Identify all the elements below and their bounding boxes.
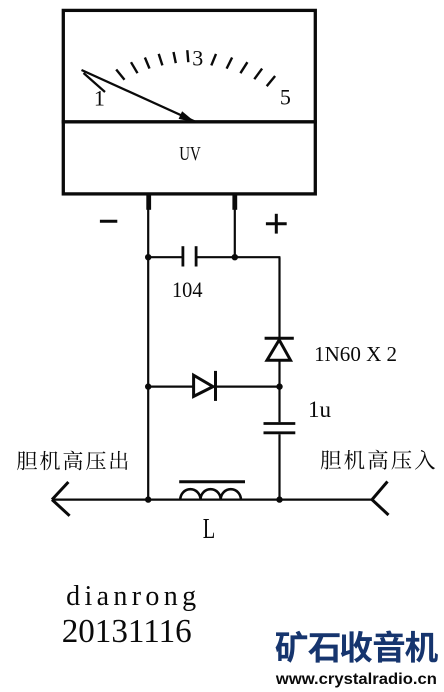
wire between D2 and node C [278, 360, 280, 386]
svg-text:20131116: 20131116 [62, 613, 192, 650]
svg-text:104: 104 [172, 277, 203, 302]
meter terminal stub left [146, 194, 151, 210]
wire mid row left [148, 386, 193, 388]
capacitor C1 104 [183, 246, 196, 266]
svg-text:1N60 X 2: 1N60 X 2 [314, 342, 397, 366]
svg-text:L: L [203, 514, 216, 545]
node C dot [276, 383, 282, 389]
meter M1 divider line [62, 120, 317, 123]
svg-text:1u: 1u [308, 397, 332, 422]
wire bottom rail [52, 499, 372, 501]
wire left vertical [147, 208, 149, 500]
wire right terminal vertical [234, 208, 236, 257]
meter needle [82, 70, 197, 123]
node E dot bottom left [145, 496, 151, 502]
svg-text:5: 5 [280, 85, 291, 110]
label tube amp HV in [321, 450, 435, 470]
meter M1 body [63, 10, 315, 194]
inductor L1 core bar [179, 480, 245, 483]
arrow left output [52, 482, 70, 516]
wire capacitor C1 row right [196, 256, 280, 258]
label tube amp HV out [17, 451, 128, 471]
svg-text:UV: UV [179, 143, 201, 165]
plus label [266, 214, 287, 234]
meter scale ticks [116, 50, 275, 86]
wire node C to capacitor C2 [278, 387, 280, 423]
minus label [100, 220, 117, 223]
inductor L1 windings [180, 489, 241, 499]
node B dot [232, 254, 238, 260]
node A dot [145, 254, 151, 260]
diode D2 vertical [265, 338, 294, 360]
arrow right input [372, 482, 389, 516]
wire right branch upper vertical [278, 257, 280, 337]
capacitor C2 1u [264, 424, 296, 433]
wire capacitor C2 to bottom [278, 434, 280, 499]
diode D1 horizontal [194, 371, 216, 401]
node D1 left dot [145, 383, 151, 389]
wire mid row right [216, 386, 280, 388]
node F dot bottom right [276, 496, 282, 502]
svg-text:3: 3 [192, 45, 203, 70]
meter terminal stub right [232, 194, 237, 210]
svg-text:www.crystalradio.cn: www.crystalradio.cn [275, 671, 437, 688]
watermark logo text [276, 631, 438, 663]
svg-text:dianrong: dianrong [66, 581, 196, 612]
wire capacitor C1 row left [148, 256, 182, 258]
